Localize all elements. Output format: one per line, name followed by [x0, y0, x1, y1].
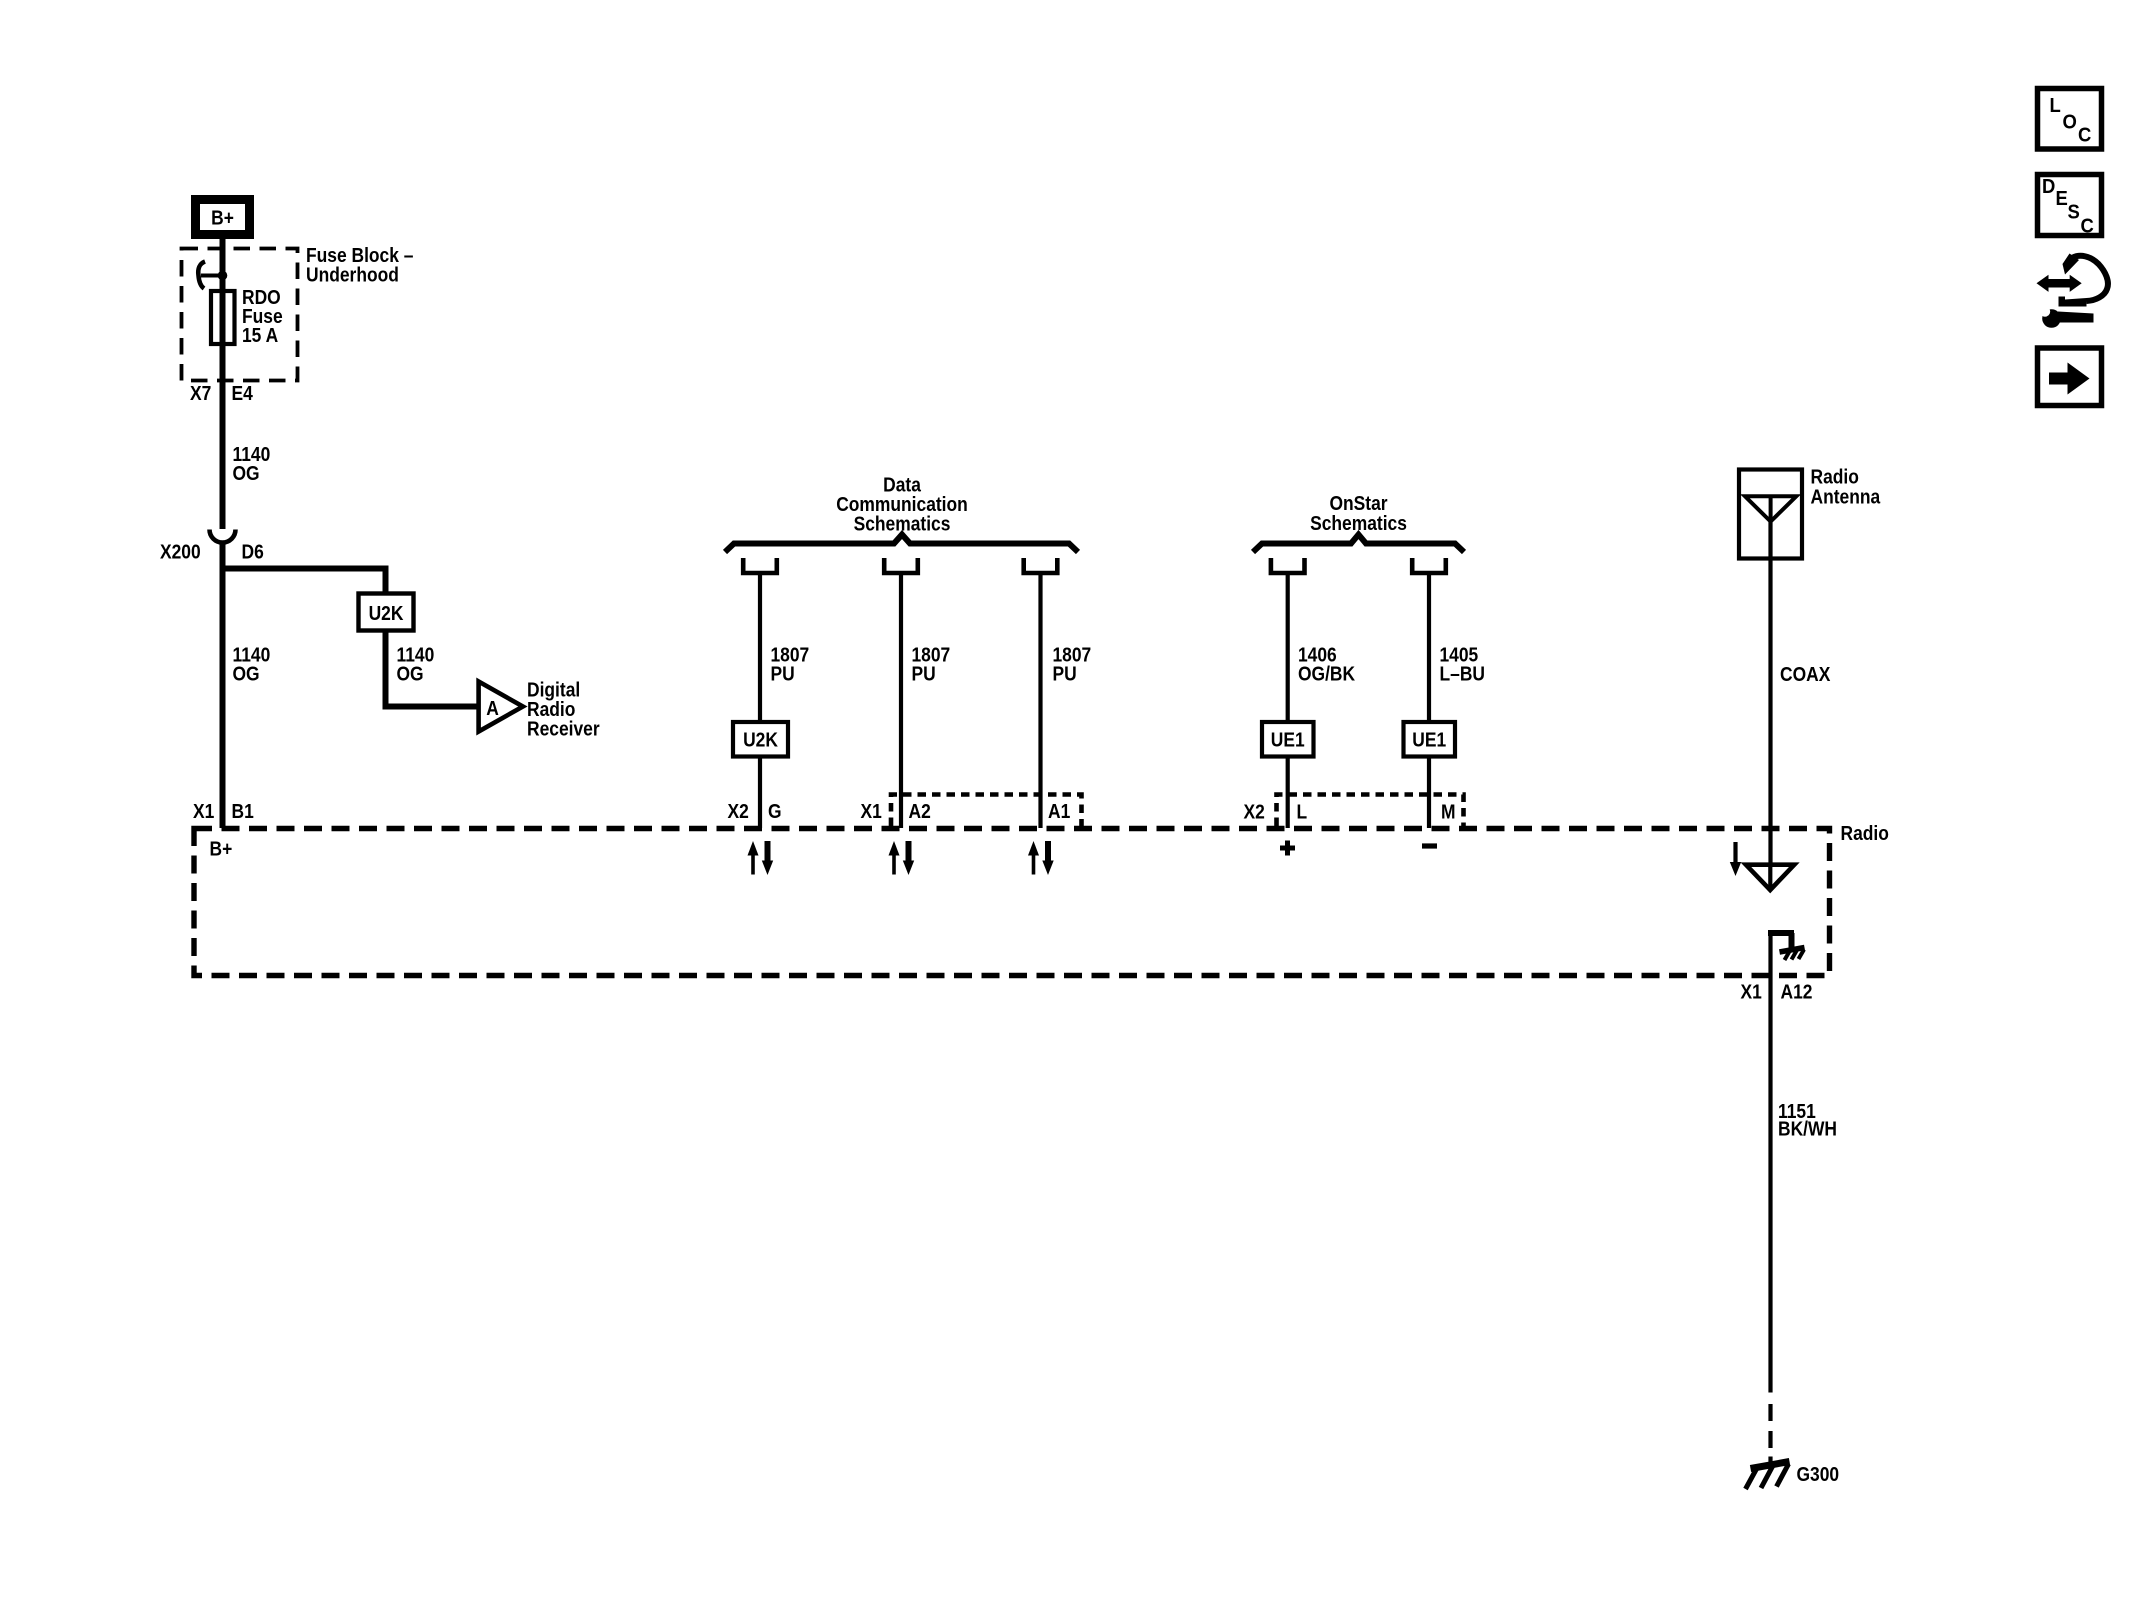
dashed connector outline X1 (A2-A1) — [891, 795, 1082, 827]
svg-text:Antenna: Antenna — [1811, 486, 1881, 509]
svg-text:OG/BK: OG/BK — [1298, 663, 1355, 686]
svg-text:X200: X200 — [160, 541, 201, 564]
off-page connector data wire 2 — [884, 558, 918, 573]
svg-text:A1: A1 — [1048, 801, 1071, 824]
digital radio receiver amplifier triangle A — [479, 682, 523, 732]
svg-text:X7: X7 — [190, 383, 211, 406]
antenna symbol inside radio — [1746, 865, 1794, 890]
svg-text:C: C — [2081, 215, 2094, 238]
svg-text:G: G — [768, 801, 782, 824]
svg-text:X2: X2 — [1244, 801, 1265, 824]
svg-text:OG: OG — [397, 663, 424, 686]
polarity + under pin L — [1280, 841, 1295, 856]
fuse holder clip terminal — [198, 262, 221, 289]
brace data communication — [725, 535, 1078, 553]
off-page connector onstar wire L — [1271, 558, 1305, 573]
wire X200 to radio pin B1 — [220, 544, 226, 829]
svg-text:U2K: U2K — [743, 729, 778, 752]
off-page connector onstar wire M — [1412, 558, 1446, 573]
svg-text:B+: B+ — [211, 207, 234, 230]
svg-text:UE1: UE1 — [1271, 729, 1305, 752]
icon DESC box — [2038, 175, 2102, 238]
svg-text:BK/WH: BK/WH — [1778, 1118, 1837, 1141]
svg-text:B+: B+ — [210, 838, 233, 861]
wire branch to U2K symbol — [223, 569, 386, 594]
icon LOC box — [2038, 89, 2102, 150]
svg-text:U2K: U2K — [369, 603, 404, 626]
svg-text:A2: A2 — [909, 801, 931, 824]
svg-text:X1: X1 — [861, 801, 883, 824]
svg-text:15 A: 15 A — [242, 325, 278, 348]
heading OnStar Schematics — [1310, 493, 1407, 536]
onstar wire M — [1427, 575, 1431, 828]
antenna symbol in antenna box — [1745, 496, 1796, 521]
svg-text:X1: X1 — [193, 801, 215, 824]
dashed ground wire segment — [1768, 1404, 1772, 1462]
svg-text:A12: A12 — [1781, 981, 1813, 1004]
chassis ground symbol inside radio — [1780, 948, 1805, 961]
svg-text:PU: PU — [912, 663, 936, 686]
svg-text:E: E — [2056, 187, 2068, 210]
wire B+ feed down through fuse to X200 — [220, 239, 226, 529]
svg-text:G300: G300 — [1797, 1464, 1840, 1487]
svg-text:Underhood: Underhood — [306, 264, 399, 287]
svg-text:M: M — [1441, 801, 1456, 824]
dashed connector outline X2 (L-M) — [1277, 795, 1464, 827]
svg-text:D6: D6 — [242, 541, 264, 564]
svg-text:OG: OG — [233, 663, 260, 686]
svg-text:COAX: COAX — [1780, 664, 1831, 687]
serial data wire 2 — [899, 575, 903, 828]
serial data wire 1 — [758, 575, 762, 828]
inline connector X200 female cup — [210, 530, 236, 543]
onstar wire L — [1286, 575, 1290, 828]
polarity - under pin M — [1422, 843, 1437, 848]
off-page connector data wire 3 — [1024, 558, 1058, 573]
ground wire radio to G300 — [1768, 930, 1772, 1393]
bidirectional arrows pin A1 — [1028, 841, 1054, 875]
svg-text:X2: X2 — [728, 801, 749, 824]
heading Data Communication Schematics — [836, 474, 968, 536]
junction dot on B+ feed — [218, 271, 228, 281]
wire U2K to digital radio receiver — [386, 630, 479, 707]
svg-text:C: C — [2078, 124, 2091, 147]
svg-text:E4: E4 — [232, 383, 254, 406]
svg-text:PU: PU — [771, 663, 795, 686]
radio antenna box — [1739, 470, 1802, 559]
svg-text:L: L — [2050, 94, 2061, 117]
svg-text:A: A — [486, 698, 499, 721]
coax wire antenna to radio — [1768, 521, 1772, 864]
internal ground hook of radio — [1768, 933, 1794, 949]
ground G300 — [1746, 1462, 1790, 1490]
UE1 callout box (M) — [1404, 722, 1456, 757]
power node B+ — [196, 200, 250, 235]
signal down arrow inside radio — [1730, 842, 1741, 876]
svg-text:OG: OG — [233, 463, 260, 486]
svg-text:O: O — [2063, 111, 2077, 134]
fuse block underhood dashed box — [182, 249, 298, 381]
svg-text:S: S — [2068, 201, 2080, 224]
off-page connector data wire 1 — [743, 558, 777, 573]
brace onstar — [1253, 535, 1464, 553]
svg-text:Receiver: Receiver — [527, 718, 600, 741]
U2K callout box (feed branch) — [359, 594, 414, 631]
svg-text:B1: B1 — [232, 801, 255, 824]
UE1 callout box (L) — [1262, 722, 1314, 757]
svg-text:L: L — [1297, 801, 1308, 824]
svg-text:PU: PU — [1053, 663, 1077, 686]
radio dashed box — [194, 829, 1830, 976]
svg-text:Radio: Radio — [1841, 823, 1889, 846]
svg-text:D: D — [2042, 175, 2055, 198]
icon jump-to with wrench — [2037, 254, 2108, 328]
icon forward arrow box — [2038, 348, 2102, 406]
svg-text:L–BU: L–BU — [1440, 663, 1485, 686]
U2K callout box (serial data) — [733, 722, 788, 757]
bidirectional arrows pin G — [748, 841, 774, 875]
svg-text:UE1: UE1 — [1412, 729, 1446, 752]
serial data wire 3 — [1038, 575, 1042, 828]
svg-text:X1: X1 — [1741, 981, 1763, 1004]
fuse RDO 15 A — [211, 291, 235, 344]
bidirectional arrows pin A2 — [889, 841, 915, 875]
